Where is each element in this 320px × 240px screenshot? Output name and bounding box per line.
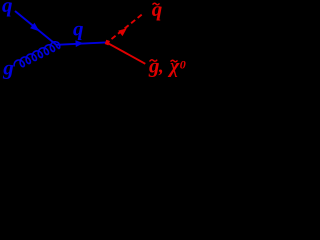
gluon coil <box>14 42 60 67</box>
svg-text:q: q <box>2 0 13 17</box>
svg-text:g: g <box>148 54 160 78</box>
svg-text:g: g <box>2 56 14 80</box>
gluino/neutralino solid line <box>107 43 145 64</box>
quark propagator line <box>57 42 107 44</box>
tilde over q~ <box>153 3 160 5</box>
svg-text:q: q <box>152 0 163 21</box>
tilde over g~ <box>150 60 158 62</box>
arrowhead on squark line <box>118 28 127 36</box>
svg-text:0: 0 <box>180 57 186 71</box>
fermion line q (incoming) <box>15 11 57 45</box>
vertex dot (red) <box>105 40 110 46</box>
svg-text:q: q <box>73 17 84 41</box>
squark dashed line <box>107 13 144 43</box>
arrowhead on propagator <box>75 40 83 47</box>
svg-text:,: , <box>158 57 164 78</box>
arrowhead on incoming quark <box>30 23 39 32</box>
tilde over chi~ <box>171 60 178 62</box>
